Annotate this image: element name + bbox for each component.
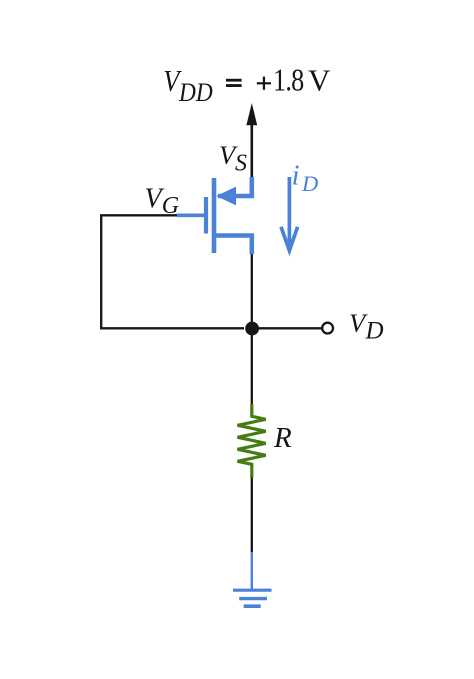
- svg-text:G: G: [162, 193, 179, 219]
- svg-text:V: V: [308, 63, 331, 98]
- svg-text:S: S: [235, 151, 247, 177]
- svg-text:D: D: [301, 171, 318, 196]
- svg-text:DD: DD: [178, 79, 213, 108]
- svg-text:R: R: [273, 422, 292, 454]
- svg-text:D: D: [365, 318, 384, 345]
- svg-text:1.8: 1.8: [273, 63, 304, 98]
- svg-text:i: i: [292, 160, 300, 192]
